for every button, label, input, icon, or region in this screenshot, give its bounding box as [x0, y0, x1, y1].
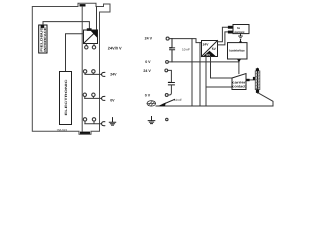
wire housing tab to converter — [96, 7, 98, 31]
svg-text:0V: 0V — [110, 98, 115, 102]
cage clamp row2 — [102, 72, 105, 76]
housing bottom rail notch mark — [80, 132, 90, 134]
businterface box U5 — [233, 25, 249, 34]
capacitor C1 10nF — [170, 39, 175, 62]
blade contact box U7 — [232, 74, 246, 90]
wire converter to electronic box — [66, 34, 84, 72]
svg-text:24 V: 24 V — [145, 37, 153, 41]
svg-text:24 V: 24 V — [143, 69, 151, 73]
wire electronics box to blade contact — [238, 59, 240, 74]
fieldbus interface box U1 — [39, 25, 47, 53]
wire drop x200 to rail — [199, 43, 201, 106]
terminal row4: contacts earth — [83, 118, 86, 121]
carrier rail line — [156, 105, 273, 107]
pad2 — [228, 31, 233, 34]
cage clamp row3 — [102, 96, 105, 100]
wire converter to businterface pad1 — [218, 27, 228, 42]
earth symbol bottom — [148, 117, 155, 124]
carrier rail left icon (hatched ellipse) — [147, 101, 156, 106]
wire 0V rail B — [168, 61, 239, 63]
0V terminal D — [165, 94, 168, 97]
svg-text:electronic: electronic — [234, 30, 244, 34]
svg-text:24V: 24V — [110, 72, 117, 76]
converter U4 leg to blade contact box — [211, 57, 233, 79]
svg-text:0 V: 0 V — [145, 60, 151, 64]
wire blade box to rail spring with pads — [246, 79, 255, 81]
cage clamp row4 — [102, 122, 105, 126]
rail contact spring (barrel) — [255, 71, 260, 90]
converter leads to power jumper contacts — [86, 44, 94, 46]
text labels — [108, 37, 153, 103]
wire fieldbus box to converter — [43, 22, 89, 29]
svg-text:contact: contact — [232, 85, 246, 89]
capacitor C2 10nF — [168, 83, 174, 85]
terminal row2: contacts 24V — [83, 70, 86, 73]
leader arrow to rail contact — [163, 99, 175, 104]
svg-text:10 nF: 10 nF — [174, 98, 182, 102]
dc/dc converter U2 (left) — [84, 30, 98, 44]
svg-text:24V/0 V: 24V/0 V — [108, 46, 122, 51]
converter U4 diagonal — [202, 41, 218, 57]
wire drop x192 to rail — [191, 39, 193, 106]
wire row C to capacitor C2 — [168, 70, 172, 82]
pad1 — [228, 26, 233, 29]
wire spring to carrier rail — [258, 93, 273, 106]
wire leg1 to blade contact box lower — [206, 86, 232, 88]
dc/dc converter U4 (right) — [202, 41, 218, 57]
arrowhead below electronics box — [237, 59, 241, 62]
svg-text:750-613: 750-613 — [57, 128, 68, 132]
converter U2 diagonal — [84, 30, 98, 44]
wire converter to businterface pad2 — [218, 32, 228, 45]
svg-text:24V: 24V — [203, 43, 210, 47]
wire 24V rail A — [169, 39, 201, 43]
converter U4 leg to rail — [205, 57, 207, 107]
converter U4 0V triangle — [203, 51, 215, 56]
housing tab black mark — [80, 4, 86, 6]
electronics box U6 (middle) — [228, 43, 248, 59]
svg-text:10 nF: 10 nF — [182, 47, 190, 51]
terminal row3: contacts 0V — [83, 93, 86, 96]
pad on fieldbus box top — [41, 25, 45, 28]
earth symbol row4 — [109, 118, 115, 126]
internal terminal rail line — [81, 7, 83, 132]
svg-text:businterface: businterface — [229, 48, 245, 52]
module housing outline (left coupler) — [32, 3, 110, 134]
0V terminal B — [166, 61, 169, 64]
svg-text:INTERFACE: INTERFACE — [43, 27, 47, 52]
pad on electronics box top — [239, 41, 241, 42]
svg-text:ELECTRONIC: ELECTRONIC — [64, 78, 68, 115]
24V terminal C — [165, 69, 168, 72]
isolation earth bars between boxes — [240, 34, 242, 36]
small contact circle — [166, 118, 168, 120]
electronic box U3 — [60, 72, 72, 125]
svg-text:0 V: 0 V — [145, 93, 151, 97]
pad on converter top — [87, 28, 92, 31]
power jumper contact circles row1 — [85, 46, 88, 49]
right schematic: 24V terminal A — [166, 37, 169, 40]
converter U2 filled triangle — [90, 30, 97, 37]
